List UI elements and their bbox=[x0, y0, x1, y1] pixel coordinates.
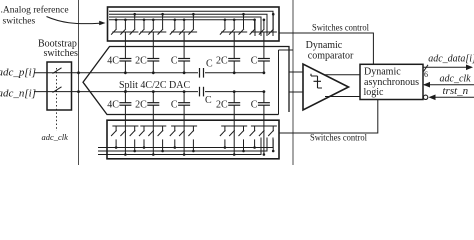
wire P-side rail adc_p (bootstrap switches to cap array) bbox=[34, 72, 264, 74]
wire comparator input stub N bbox=[290, 91, 304, 93]
label Switches control (top) bbox=[312, 23, 369, 33]
svg-text:4C: 4C bbox=[107, 100, 119, 111]
svg-text:switches: switches bbox=[3, 16, 36, 26]
svg-text:C: C bbox=[206, 59, 213, 70]
svg-text:adc_data[i]: adc_data[i] bbox=[428, 54, 474, 65]
wire comparator input stub P bbox=[290, 71, 304, 73]
switch group S5n (bottom block, column C) bbox=[250, 126, 277, 156]
svg-text:C: C bbox=[171, 100, 178, 111]
wire N-side rail adc_n (bootstrap switches to cap array) bbox=[34, 91, 264, 93]
label Bootstrap switches bbox=[38, 39, 78, 60]
wire comparator output N (to logic) bbox=[325, 96, 360, 98]
capacitor 4C (P array) bbox=[107, 56, 131, 73]
signal adc_clk input bbox=[423, 73, 474, 87]
switch group S3p (top block, column C) bbox=[170, 13, 197, 59]
svg-text:2C: 2C bbox=[135, 100, 147, 111]
svg-text:Dynamic: Dynamic bbox=[364, 67, 401, 78]
capacitor C (P array) bbox=[171, 56, 190, 73]
capacitor 2C (N array) bbox=[216, 92, 240, 126]
label Switches control (bottom) bbox=[310, 133, 367, 143]
switch group S1n (bottom block, column 4C) bbox=[111, 126, 138, 156]
capacitor 2C (N array) bbox=[135, 92, 159, 126]
switch bootstrap N bbox=[53, 87, 62, 93]
svg-text:C: C bbox=[251, 100, 258, 111]
block switches (bottom) bbox=[107, 120, 279, 159]
switch group S3n (bottom block, column C) bbox=[170, 126, 197, 156]
capacitor 4C (N array) bbox=[107, 92, 131, 126]
op-amp dynamic comparator U1 bbox=[303, 64, 349, 110]
capacitor C (P array) bbox=[251, 56, 270, 73]
label adc_p[i] bbox=[0, 67, 36, 79]
svg-text:adc_n[i]: adc_n[i] bbox=[0, 88, 36, 100]
switch group S5p (top block, column C) bbox=[250, 13, 277, 59]
svg-text:Split 4C/2C DAC: Split 4C/2C DAC bbox=[119, 80, 190, 91]
label Dynamic comparator bbox=[306, 40, 354, 62]
junction dots on P-side rail bbox=[77, 71, 265, 74]
svg-text:.Analog reference: .Analog reference bbox=[1, 4, 69, 15]
svg-text:C: C bbox=[205, 95, 212, 106]
wire comparator output P (to logic) bbox=[324, 74, 360, 76]
block analog reference switches (top) bbox=[108, 7, 280, 41]
wire switches control (top block to logic) bbox=[279, 33, 373, 64]
label Dynamic asynchronous logic bbox=[364, 67, 420, 99]
capacitor C bridge (P side) bbox=[200, 59, 214, 78]
wire reference bus lines (top block) bbox=[109, 11, 273, 36]
svg-text:Dynamic: Dynamic bbox=[306, 40, 343, 51]
svg-text:Switches control: Switches control bbox=[310, 133, 367, 143]
capacitor C bridge (N side) bbox=[200, 87, 213, 106]
switch group S2n (bottom block, column 2C) bbox=[139, 126, 166, 156]
block dynamic asynchronous logic bbox=[360, 64, 423, 99]
svg-text:Switches control: Switches control bbox=[312, 23, 369, 33]
svg-text:logic: logic bbox=[364, 87, 385, 98]
capacitor C (N array) bbox=[251, 92, 270, 126]
switch group S2p (top block, column 2C) bbox=[139, 13, 166, 59]
wire reference bus lines (bottom block) bbox=[98, 138, 273, 155]
block bootstrap switches bbox=[47, 62, 72, 110]
capacitor 2C (P array) bbox=[135, 56, 159, 73]
junction dots on N-side rail bbox=[77, 90, 265, 93]
svg-text:comparator: comparator bbox=[308, 51, 354, 62]
leader arrow to analog reference switches block bbox=[47, 17, 106, 26]
outline split 4C/2C DAC block (pennant) bbox=[83, 47, 289, 115]
wire switches control (logic to bottom block) bbox=[279, 100, 378, 134]
wire stub top-right (DAC inner edge to right rail) bbox=[279, 49, 294, 51]
wire inner right edge of DAC array bbox=[278, 50, 280, 115]
svg-text:adc_clk: adc_clk bbox=[42, 132, 69, 142]
wire vertical rail right (full height) bbox=[292, 0, 294, 165]
svg-text:2C: 2C bbox=[135, 56, 147, 67]
capacitor C (N array) bbox=[171, 92, 190, 126]
label Split 4C/2C DAC bbox=[119, 80, 190, 91]
signal trst_n input (active low) bbox=[423, 85, 474, 100]
svg-text:adc_p[i]: adc_p[i] bbox=[0, 67, 36, 79]
switch group S4p (top block, column 2C) bbox=[220, 13, 247, 59]
svg-text:C: C bbox=[251, 56, 258, 67]
wire vertical rail left (full height) bbox=[78, 0, 80, 165]
svg-text:2C: 2C bbox=[216, 56, 228, 67]
svg-text:2C: 2C bbox=[216, 100, 228, 111]
label adc_clk (bootstrap clock) bbox=[42, 132, 69, 142]
svg-text:C: C bbox=[171, 56, 178, 67]
label Analog reference switches bbox=[1, 4, 69, 26]
svg-text:4C: 4C bbox=[107, 56, 119, 67]
wire adc_clk (dotted, to bootstrap switches) bbox=[56, 68, 58, 131]
label adc_n[i] bbox=[0, 88, 36, 100]
capacitor 2C (P array) bbox=[216, 56, 240, 73]
svg-text:trst_n: trst_n bbox=[443, 85, 469, 97]
signal adc_data[i] output bbox=[423, 54, 474, 80]
switch group S1p (top block, column 4C) bbox=[111, 13, 138, 59]
svg-text:switches: switches bbox=[44, 48, 79, 59]
switch bootstrap P bbox=[53, 68, 62, 74]
switch group S4n (bottom block, column 2C) bbox=[220, 126, 247, 156]
svg-text:6: 6 bbox=[424, 70, 428, 79]
svg-text:adc_clk: adc_clk bbox=[440, 73, 472, 84]
